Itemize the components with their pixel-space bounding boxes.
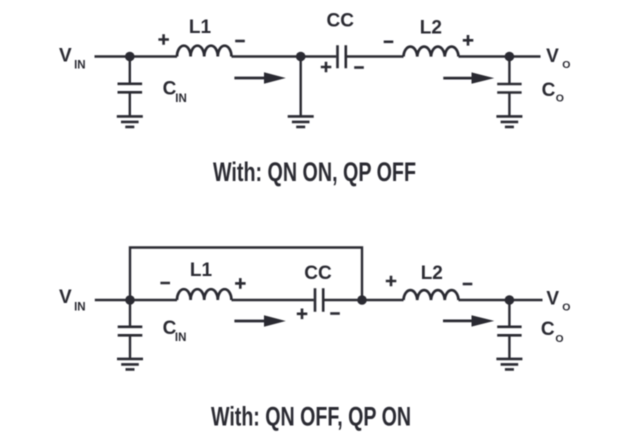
svg-text:IN: IN	[74, 60, 86, 72]
svg-text:L1: L1	[189, 17, 212, 38]
svg-text:O: O	[556, 92, 564, 104]
svg-text:CC: CC	[304, 263, 332, 284]
svg-text:V: V	[59, 45, 72, 66]
svg-text:C: C	[541, 319, 555, 340]
svg-text:O: O	[555, 333, 563, 345]
svg-text:L2: L2	[420, 17, 442, 38]
svg-text:V: V	[546, 289, 559, 310]
svg-text:CC: CC	[326, 11, 354, 32]
svg-text:V: V	[546, 46, 559, 67]
svg-text:With: QN ON, QP OFF: With: QN ON, QP OFF	[213, 157, 416, 187]
svg-text:IN: IN	[74, 301, 86, 313]
svg-text:O: O	[562, 301, 570, 313]
svg-text:IN: IN	[175, 93, 187, 105]
svg-text:O: O	[562, 59, 570, 71]
svg-text:V: V	[59, 287, 72, 308]
svg-text:IN: IN	[175, 332, 187, 344]
svg-text:C: C	[542, 80, 556, 101]
svg-text:L1: L1	[190, 260, 213, 281]
svg-text:With: QN OFF, QP ON: With: QN OFF, QP ON	[211, 402, 411, 432]
svg-text:L2: L2	[421, 263, 443, 284]
